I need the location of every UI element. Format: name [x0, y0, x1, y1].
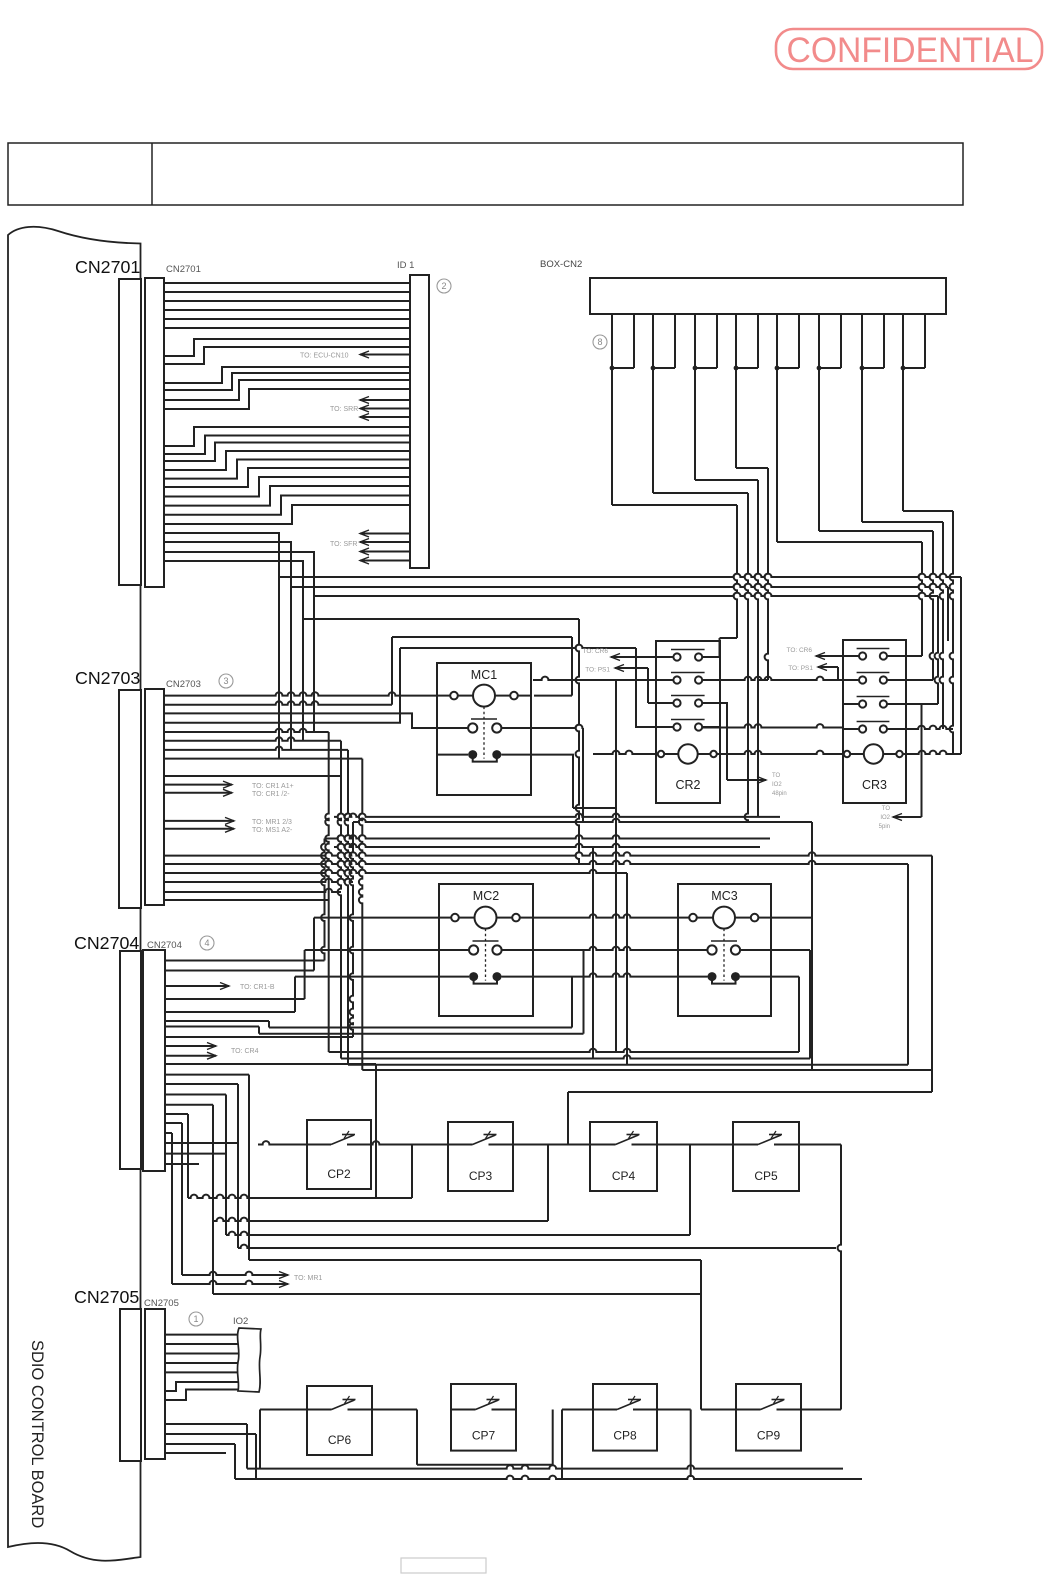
svg-text:1: 1: [193, 1314, 198, 1324]
wire H3 nc row: [295, 973, 799, 1052]
svg-text:ID 1: ID 1: [397, 260, 414, 271]
connector CN2703 cable half: [145, 689, 164, 905]
wire ID1 to SFR b: [330, 539, 410, 549]
svg-text:TO: PS1: TO: PS1: [585, 667, 610, 674]
wire CN2703 pin13: [164, 879, 353, 882]
wire CN2703 pin15: [164, 899, 329, 901]
ref 1: [189, 1312, 203, 1326]
wire bus row1: [164, 533, 961, 759]
svg-text:CP4: CP4: [612, 1169, 636, 1183]
svg-text:TO: SRR: TO: SRR: [330, 406, 358, 413]
BOX-CN2 pin pair 5: [775, 314, 799, 375]
wire BOX-CN2 w2: [653, 375, 748, 822]
wire CN2701 stair 3: [164, 443, 410, 462]
wire CP2 feed stub: [258, 1141, 307, 1144]
svg-text:TO: CR6: TO: CR6: [786, 647, 812, 654]
wire mid row b: [353, 819, 812, 1070]
wire loop x259: [164, 950, 584, 1034]
wire ID1 to ECU-CN10: [300, 351, 410, 360]
wire CN2701 pin4 to ID1: [164, 309, 410, 311]
wire CP2-CP3 link: [371, 1141, 448, 1144]
BOX-CN2 pin pair 3: [693, 314, 717, 375]
SDIO control board outline: [8, 227, 141, 1561]
wire bottom row 1058: [341, 1055, 810, 1058]
wire CN2704 to CR1-B: [164, 983, 275, 992]
svg-text:CP8: CP8: [613, 1429, 637, 1443]
label CN2703: [75, 668, 140, 688]
wire vertical x616: [615, 680, 617, 1052]
wire CR2 row3 to IO2: [702, 703, 786, 797]
wire CR3 to CR6: [786, 647, 843, 660]
BOX-CN2 pin pair 2: [651, 314, 675, 375]
svg-text:TO: TO: [772, 773, 781, 779]
svg-text:CP6: CP6: [328, 1433, 352, 1447]
svg-text:CP7: CP7: [472, 1429, 496, 1443]
wire CN2701 step B: [164, 347, 410, 364]
label CN2704: [74, 933, 139, 953]
wire H3 riser: [164, 977, 295, 1012]
wire CR2-CR3 coil link: [717, 751, 843, 754]
BOX-CN2 pin pair 4: [734, 314, 758, 375]
wire CN2701 stair 4: [164, 451, 410, 470]
wire CN2705 drop2: [164, 1434, 256, 1479]
wire CR3 row4 right: [887, 726, 953, 729]
svg-text:CN2704: CN2704: [147, 940, 182, 951]
wire CN2703 pin4 to CR2 row4: [164, 645, 656, 727]
svg-text:CP5: CP5: [754, 1169, 778, 1183]
contactor MC1: [437, 663, 531, 795]
wire CN2704 to CR4 b: [164, 1048, 259, 1059]
wire CN2703 pin12: [164, 870, 627, 1065]
breaker CP8: [593, 1384, 657, 1451]
wire MC1 b-contact out: [531, 725, 583, 822]
wire CN2705 to IO2 y1363: [164, 1362, 238, 1364]
wire CN2701 pin5 to ID1: [164, 318, 410, 320]
wire CN2703 pin1 to MC1 coil: [164, 692, 437, 695]
wire CP6 feed riser: [260, 1410, 307, 1469]
wire CN2704 pin 1143: [164, 1142, 238, 1144]
faint stamp fragment: [401, 1558, 486, 1573]
label ID1: [397, 260, 414, 271]
wire CN2704 drop y1094: [164, 1095, 690, 1236]
wire CN2704 drop y1114: [164, 1114, 412, 1198]
wire CN2701 pin3 to ID1: [164, 300, 410, 302]
breaker CP7: [451, 1384, 516, 1451]
svg-text:TO: SFR: TO: SFR: [330, 541, 357, 548]
svg-text:IO2: IO2: [772, 782, 782, 788]
wire vertical x593: [592, 847, 594, 1059]
wire CN2701 step C: [164, 367, 410, 383]
svg-text:MC3: MC3: [711, 889, 737, 903]
contactor MC2: [439, 884, 533, 1016]
wire CN2704 drop y1104: [164, 1105, 701, 1294]
wire BOX-CN2 w6: [819, 375, 933, 680]
svg-text:IO2: IO2: [233, 1316, 248, 1327]
wire CN2704 pin 1153: [164, 1153, 226, 1155]
wire CN2701 stair 9: [164, 496, 410, 515]
wire CR2-CR3 row2 link: [758, 677, 843, 680]
connector CN2703 board half: [119, 690, 141, 908]
wire CN2704 pin 1164: [164, 1163, 199, 1165]
wire mid row c: [325, 835, 771, 838]
wire bottom row 1070: [362, 1069, 932, 1071]
svg-text:TO: CR4: TO: CR4: [231, 1048, 259, 1055]
wire ID1 to SFR a: [360, 530, 410, 537]
svg-text:TO: CR1 A1+: TO: CR1 A1+: [252, 783, 294, 790]
wire CN2704 to MR1 b: [164, 1133, 322, 1288]
svg-text:CONFIDENTIAL: CONFIDENTIAL: [787, 31, 1034, 70]
wire CN2704 to CR4 a: [164, 1043, 216, 1050]
svg-text:3: 3: [223, 676, 228, 686]
wire CN2705 to IO2 y1372: [164, 1371, 238, 1373]
svg-text:TO: CR6: TO: CR6: [582, 648, 608, 655]
wire CN2704 to MR1 a: [164, 1123, 288, 1279]
wire CN2705 drop3: [164, 1444, 862, 1479]
wire MC1 over-top return: [392, 637, 572, 705]
wire CN2705 step a: [164, 1382, 238, 1391]
svg-text:SDIO CONTROL BOARD: SDIO CONTROL BOARD: [28, 1340, 46, 1528]
svg-text:4: 4: [204, 938, 209, 948]
wire CN2703 pin9: [164, 775, 341, 777]
wire CP7 loop: [417, 1410, 553, 1465]
wire CP9 loop: [701, 1260, 841, 1410]
wire CN2701 stair 6: [164, 468, 410, 487]
label CN2705: [74, 1287, 139, 1307]
wire CN2704 drop y1084: [164, 1084, 836, 1248]
svg-text:CP3: CP3: [469, 1169, 493, 1183]
wire ID1 to SRR c: [360, 414, 410, 421]
wire H1 coil row: [314, 914, 812, 917]
wire CN2703 pin11: [164, 861, 908, 1065]
wire CN2705 to IO2 y1334: [164, 1334, 238, 1336]
svg-text:TO: MR1 2/3: TO: MR1 2/3: [252, 819, 292, 826]
wire CN2701 pin6 to ID1: [164, 327, 410, 329]
wire riser x324: [164, 839, 325, 961]
svg-text:CP2: CP2: [327, 1167, 351, 1181]
svg-text:MC2: MC2: [473, 889, 499, 903]
svg-text:CN2703: CN2703: [166, 679, 201, 690]
wire CN2703 pin7 drop: [164, 747, 348, 1065]
wire riser x548: [547, 1145, 549, 1222]
wire CR3 row2 right: [887, 679, 933, 681]
wire CN2701 step F: [164, 389, 410, 409]
wire bus row2: [164, 542, 948, 750]
BOX-CN2 pin pair 7: [860, 314, 884, 375]
svg-text:BOX-CN2: BOX-CN2: [540, 259, 582, 270]
connector CN2701 cable half: [145, 278, 164, 587]
wire CP3-CP4 link: [513, 1144, 590, 1146]
svg-text:8: 8: [597, 337, 602, 347]
wire MC1 nc out: [531, 755, 616, 808]
board name: [28, 1340, 46, 1528]
label CN2701: [75, 257, 140, 277]
svg-text:TO: TO: [882, 806, 891, 812]
wire CN2701 pin2 to ID1: [164, 291, 410, 293]
wire H1 riser: [164, 918, 314, 971]
connector CN2703 small label: [166, 679, 201, 690]
wire CN2701 pin1 to ID1: [164, 282, 410, 284]
svg-text:5pin: 5pin: [879, 824, 890, 830]
wire CN2705 pin last: [164, 1452, 226, 1454]
wire CN2705 drop1: [164, 1424, 843, 1469]
wire ID1 to SFR c: [360, 548, 410, 555]
svg-text:2: 2: [441, 281, 446, 291]
breaker CP9: [736, 1384, 801, 1451]
relay CR2: [656, 641, 720, 803]
wire BOX-CN2 w1: [612, 375, 737, 638]
wire big loop x353: [164, 822, 353, 1037]
wire CR2 row1 top loop: [702, 638, 737, 657]
wire CN2701 stair 1: [164, 427, 410, 446]
wire CN2703 pin5 drop: [164, 729, 329, 1052]
wire CN2703 to MS1: [164, 825, 293, 834]
connector CN2704 board half: [120, 951, 141, 1169]
svg-text:TO: CR1 /2-: TO: CR1 /2-: [252, 791, 290, 798]
svg-text:CN2701: CN2701: [75, 257, 140, 277]
wire bottom row 1052: [329, 1049, 799, 1052]
label IO2: [233, 1316, 248, 1327]
wire CN2705 step b: [164, 1390, 238, 1401]
wire CR2-CR3 row4 link: [702, 724, 843, 727]
BOX-CN2 pin pair 6: [817, 314, 841, 375]
ref 4: [200, 936, 214, 950]
wire bus row4: [164, 561, 579, 864]
connector BOX-CN2: [590, 278, 946, 314]
wire loop x269: [164, 977, 572, 1028]
wire riser x412: [411, 1145, 413, 1199]
wire BOX-CN2 w4: [736, 375, 768, 680]
wire CP5 out: [799, 1145, 841, 1410]
svg-text:CN2703: CN2703: [75, 668, 140, 688]
breaker CP2: [307, 1120, 371, 1189]
confidential stamp: [776, 29, 1042, 70]
breaker CP5: [733, 1122, 799, 1191]
wire CN2703 pin14: [164, 889, 341, 892]
connector CN2704 cable half: [143, 950, 165, 1171]
wire CN2703 pin8 drop: [164, 759, 362, 1070]
connector CN2705 small label: [144, 1298, 179, 1309]
svg-text:TO: PS1: TO: PS1: [788, 665, 813, 672]
wire CN2701 step E: [164, 380, 410, 400]
breaker CP3: [448, 1122, 513, 1191]
ref 8: [593, 335, 607, 349]
connector CN2701 board half: [119, 279, 141, 585]
ref 2: [437, 279, 451, 293]
wire bottom row 1064: [348, 1064, 908, 1066]
wire CP4-CP5 link: [657, 1144, 733, 1146]
svg-text:CN2705: CN2705: [144, 1298, 179, 1309]
wire H2 row2 row: [305, 947, 810, 1059]
wire CN2704 pin feed CP2: [164, 1064, 376, 1198]
wire CN2705 to IO2 y1353: [164, 1353, 238, 1355]
connector IO2: [237, 1328, 261, 1392]
svg-text:TO: ECU-CN10: TO: ECU-CN10: [300, 353, 349, 360]
svg-text:CR2: CR2: [675, 778, 700, 792]
svg-text:TO: MR1: TO: MR1: [294, 1275, 322, 1282]
wire CN2701 step D: [164, 373, 410, 390]
wire CN2703 to CR1 2-: [164, 789, 290, 798]
wire CN2701 stair 2: [164, 436, 410, 455]
wire ID1 to SRR b: [330, 405, 410, 413]
wire CN2703 to CR1 A1+: [164, 781, 294, 790]
wire CR3 row1 right: [887, 655, 922, 657]
wire ID1 to SFR d: [360, 557, 410, 564]
connector CN2705 cable half: [145, 1309, 165, 1459]
wire CN2703 pin10: [164, 852, 932, 1092]
wire H2 riser: [164, 950, 305, 999]
wire CN2704 drop y1074: [164, 1075, 701, 1260]
label BOX-CN2: [540, 259, 582, 270]
wire CR2 coil left: [593, 751, 656, 754]
svg-text:CR3: CR3: [862, 778, 887, 792]
connector CN2705 board half: [120, 1309, 141, 1461]
wire CR3 coil right: [903, 577, 961, 754]
wire CP6 out: [372, 1409, 417, 1411]
wire CN2701 stair 8: [164, 486, 410, 506]
wire mid row d: [334, 844, 760, 847]
BOX-CN2 pin pair 8: [901, 314, 925, 375]
wire CN2703 pin3 to MC1 b-contact: [164, 713, 437, 728]
wire mid row a: [334, 814, 780, 817]
title table: [8, 143, 963, 205]
wire CR2 row2 left: [533, 677, 656, 680]
wire CR3 to PS1: [788, 664, 838, 681]
wire CR2 row2 right: [702, 677, 768, 680]
svg-text:CN2701: CN2701: [166, 264, 201, 275]
wire CR3 row3 right arrow: [879, 596, 938, 830]
svg-text:MC1: MC1: [471, 668, 497, 682]
wire BOX-CN2 w5: [777, 375, 922, 656]
connector CN2701 small label: [166, 264, 201, 275]
BOX-CN2 pin pair 1: [610, 314, 634, 375]
svg-text:TO: CR1-B: TO: CR1-B: [240, 984, 275, 991]
wire BOX-CN2 w7: [862, 375, 943, 729]
svg-text:TO: MS1 A2-: TO: MS1 A2-: [252, 827, 293, 834]
breaker CP6: [307, 1386, 372, 1455]
wire CP8 out: [657, 1410, 691, 1478]
wire CP8 feed riser: [562, 1410, 593, 1480]
wire ID1 to SRR a: [360, 397, 410, 404]
wire CR2 to CR6: [582, 648, 656, 661]
wire CN2701 stair 7: [164, 477, 410, 497]
wire CR2 to PS1: [585, 665, 656, 704]
svg-text:CN2705: CN2705: [74, 1287, 139, 1307]
svg-text:IO2: IO2: [880, 815, 890, 821]
ref 3: [219, 674, 233, 688]
breaker CP4: [590, 1122, 657, 1191]
wire CN2705 to IO2 y1344: [164, 1343, 238, 1345]
contactor MC3: [678, 884, 771, 1016]
wire CN2703 to MR1: [164, 817, 292, 826]
wire CN2703 pin2 to MC1 coil return: [164, 701, 392, 704]
svg-text:CP9: CP9: [757, 1429, 781, 1443]
wire CN2701 stair 5: [164, 460, 410, 479]
wire bus row3: [164, 552, 938, 732]
wire CN2701 step A: [164, 339, 410, 356]
connector ID1: [410, 275, 429, 568]
svg-text:48pin: 48pin: [772, 791, 787, 797]
wire CN2703 pin6 drop: [164, 737, 341, 1058]
wire riser x690: [689, 1145, 691, 1236]
wire box row 1092: [568, 1092, 932, 1145]
wire BOX-CN2 w3: [695, 375, 758, 817]
connector CN2704 small label: [147, 940, 182, 951]
wire CN2701 stair 10: [164, 505, 410, 524]
relay CR3: [843, 640, 906, 803]
wire BOX-CN2 w8: [903, 375, 953, 754]
